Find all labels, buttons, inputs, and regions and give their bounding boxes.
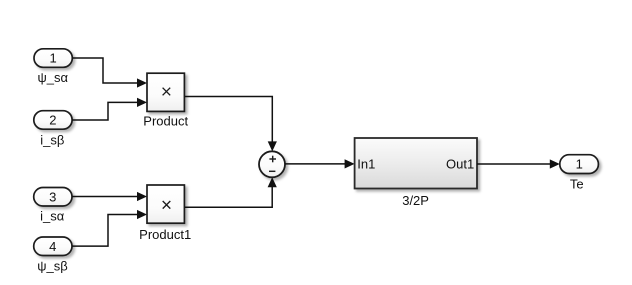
sum block — [259, 151, 285, 177]
plus sign of sum — [269, 156, 276, 163]
inport 3 — [34, 188, 72, 207]
minus sign of sum — [269, 170, 275, 172]
inport 1 — [34, 49, 72, 68]
svg-text:Te: Te — [570, 176, 584, 191]
svg-text:Product: Product — [143, 113, 188, 128]
svg-text:ψ_sα: ψ_sα — [38, 70, 69, 85]
wire subsystem Out1 to outport Te — [477, 159, 560, 168]
wire inport1 to Product in1 — [72, 58, 147, 88]
wire inport2 to Product in2 — [72, 98, 147, 120]
svg-text:Out1: Out1 — [446, 156, 474, 171]
inport 4 — [34, 237, 72, 256]
svg-text:i_sα: i_sα — [40, 209, 65, 224]
svg-text:In1: In1 — [357, 156, 375, 171]
svg-text:1: 1 — [49, 51, 56, 66]
wire Product out to sum top — [185, 97, 277, 152]
wire inport3 to Product1 in1 — [72, 192, 147, 201]
svg-text:i_sβ: i_sβ — [40, 132, 64, 147]
svg-text:3: 3 — [49, 189, 56, 204]
product block Product1 — [147, 185, 184, 223]
subsystem block 3/2P — [355, 138, 477, 189]
inport 2 — [34, 111, 72, 130]
svg-text:ψ_sβ: ψ_sβ — [37, 258, 67, 273]
multiply sign of Product — [163, 88, 171, 96]
svg-text:1: 1 — [576, 157, 583, 172]
svg-text:4: 4 — [49, 239, 56, 254]
wire inport4 to Product1 in2 — [72, 210, 147, 246]
wire sum out to subsystem In1 — [285, 159, 355, 168]
svg-text:2: 2 — [49, 113, 56, 128]
product block Product — [147, 73, 184, 111]
svg-text:3/2P: 3/2P — [402, 193, 429, 208]
svg-text:Product1: Product1 — [139, 227, 191, 242]
wire Product1 out to sum bottom — [185, 177, 277, 207]
outport 1 — [560, 155, 599, 174]
multiply sign of Product1 — [163, 201, 171, 209]
